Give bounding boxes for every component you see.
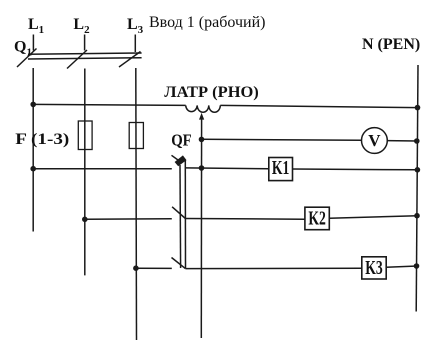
svg-text:N (PEN): N (PEN) (362, 36, 420, 53)
svg-text:ЛАТР (РНО): ЛАТР (РНО) (164, 84, 258, 101)
svg-text:QF: QF (171, 131, 192, 150)
svg-text:L2: L2 (73, 16, 90, 36)
svg-text:K2: K2 (308, 209, 326, 230)
svg-text:L1: L1 (28, 16, 44, 36)
svg-text:K3: K3 (365, 258, 383, 279)
svg-text:Q1: Q1 (14, 39, 32, 59)
svg-text:K1: K1 (272, 158, 290, 179)
svg-text:L3: L3 (127, 16, 144, 36)
svg-text:V: V (368, 131, 381, 150)
svg-text:Ввод 1 (рабочий): Ввод 1 (рабочий) (149, 14, 265, 31)
svg-text:F (1-3): F (1-3) (15, 131, 69, 148)
